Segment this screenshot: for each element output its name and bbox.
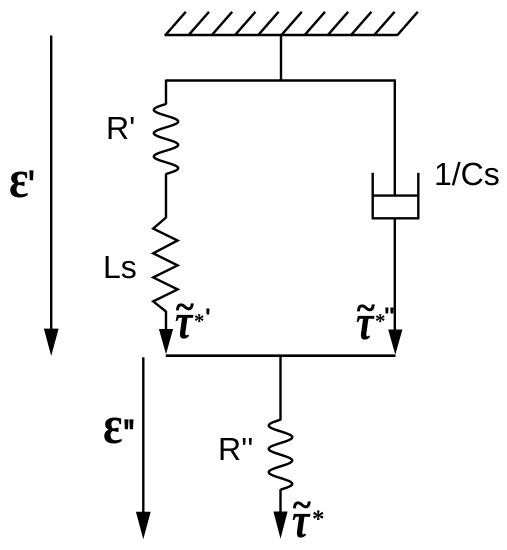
spring Ls (zigzag) (153, 218, 177, 312)
label R' (106, 110, 135, 147)
label tau*'' right (357, 290, 375, 328)
arrowhead right branch (tau*'') (388, 330, 402, 355)
label epsilon'' (103, 394, 123, 456)
wire: ceiling to top bar (280, 35, 282, 81)
strain arrow epsilon'' shaft (142, 357, 144, 513)
dashpot 1/Cs: cup left wall (372, 173, 374, 219)
strain arrow epsilon' shaft (50, 36, 52, 331)
strain arrow epsilon' head (44, 329, 59, 356)
dashpot 1/Cs: piston plate (373, 194, 419, 196)
dashpot 1/Cs: cup right wall (417, 173, 419, 219)
wire: bottom bar to spring R'' (279, 356, 281, 421)
label Ls (103, 249, 137, 286)
ceiling fixed support line (165, 34, 398, 36)
ceiling hatch marks (165, 12, 418, 36)
arrowhead left branch (tau*') (159, 329, 173, 354)
spring R'' (coil) (269, 420, 293, 490)
label epsilon' (9, 148, 29, 210)
label tau*' left (175, 289, 193, 327)
label 1/Cs (433, 156, 499, 193)
wire: right branch rod (394, 80, 396, 197)
wire: Ls to left arrow (165, 311, 167, 330)
arrowhead bottom branch (tau*) (273, 512, 287, 539)
spring R' (coil) (154, 104, 178, 174)
label tau* bottom (293, 487, 311, 525)
dashpot 1/Cs: cup bottom (372, 217, 420, 219)
wire: R'' to bottom arrow (279, 489, 281, 512)
wire: bottom bar (166, 354, 396, 357)
wire: dashpot to right arrow (394, 218, 396, 330)
label R'' (218, 431, 253, 468)
strain arrow epsilon'' head (136, 512, 151, 539)
wire: between R' and Ls (165, 174, 167, 219)
wire: left branch top (165, 80, 167, 105)
wire: top bar (166, 79, 396, 82)
